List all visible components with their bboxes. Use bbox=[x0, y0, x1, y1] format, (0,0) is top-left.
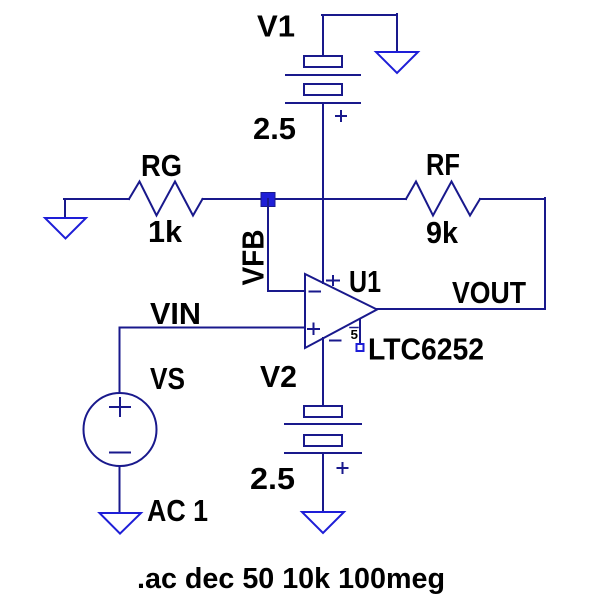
svg-text:VIN: VIN bbox=[150, 296, 201, 331]
svg-text:9k: 9k bbox=[426, 215, 459, 250]
svg-text:VOUT: VOUT bbox=[452, 275, 526, 310]
svg-text:2.5: 2.5 bbox=[250, 461, 295, 496]
wire V2 to ground bbox=[322, 453, 324, 512]
ground left bbox=[45, 199, 86, 239]
svg-text:LTC6252: LTC6252 bbox=[368, 332, 484, 367]
op-amp U1 bbox=[305, 274, 377, 348]
value 2.5 (V2) bbox=[250, 461, 295, 496]
wire V1 minus to op-amp V+ pin bbox=[322, 103, 324, 283]
voltage source VS bbox=[84, 393, 157, 466]
resistor RG bbox=[129, 182, 203, 216]
svg-text:U1: U1 bbox=[349, 264, 381, 299]
wire ground stub top right bbox=[396, 14, 398, 52]
label VIN bbox=[150, 296, 201, 331]
svg-text:V2: V2 bbox=[260, 359, 297, 394]
junction node VFB bbox=[261, 193, 275, 207]
svg-text:V1: V1 bbox=[257, 9, 295, 44]
wire VIN horizontal bbox=[120, 327, 306, 329]
wire RG to RF (through node VFB) bbox=[203, 198, 407, 200]
label VOUT bbox=[452, 275, 526, 310]
value 1k bbox=[148, 214, 183, 249]
ground top right bbox=[376, 52, 418, 73]
wire VS to ground bbox=[119, 466, 121, 513]
label U1 bbox=[349, 264, 381, 299]
wire node VFB down bbox=[267, 199, 269, 291]
label LTC6252 bbox=[368, 332, 484, 367]
svg-text:VS: VS bbox=[150, 361, 185, 396]
value 2.5 (V1) bbox=[253, 111, 296, 146]
svg-text:1k: 1k bbox=[148, 214, 183, 249]
resistor RF bbox=[406, 182, 480, 216]
wire VFB to inverting input bbox=[268, 290, 305, 292]
pin 5 stub bbox=[359, 319, 361, 344]
svg-text:2.5: 2.5 bbox=[253, 111, 296, 146]
svg-text:RF: RF bbox=[426, 147, 460, 182]
wire V1 top horizontal bbox=[322, 14, 397, 16]
label V1 bbox=[257, 9, 295, 44]
wire V1 top vertical bbox=[322, 15, 324, 56]
wire VOUT horizontal to op-amp output bbox=[377, 308, 545, 310]
value 9k bbox=[426, 215, 459, 250]
label RF bbox=[426, 147, 460, 182]
svg-text:.ac dec 50 10k 100meg: .ac dec 50 10k 100meg bbox=[137, 563, 445, 595]
ground bottom left bbox=[100, 513, 142, 534]
label VS bbox=[150, 361, 185, 396]
value AC 1 bbox=[147, 493, 208, 528]
wire VIN down to VS bbox=[119, 328, 121, 394]
pin number 5 bbox=[350, 327, 358, 342]
pin 5 terminal square bbox=[357, 344, 364, 351]
wire right vertical (VOUT feedback) bbox=[544, 198, 546, 309]
wire RF to right corner bbox=[480, 198, 545, 200]
svg-text:5: 5 bbox=[351, 327, 359, 342]
battery V2 bbox=[285, 406, 361, 473]
label RG bbox=[141, 148, 182, 183]
wire op-amp V- pin to V2 bbox=[322, 338, 324, 406]
spice directive .ac bbox=[137, 563, 445, 595]
svg-text:VFB: VFB bbox=[236, 230, 271, 286]
net label VFB bbox=[236, 230, 271, 286]
battery V1 bbox=[286, 56, 360, 121]
wire left ground to RG bbox=[64, 198, 129, 200]
svg-text:AC 1: AC 1 bbox=[147, 493, 208, 528]
label V2 bbox=[260, 359, 297, 394]
svg-text:RG: RG bbox=[141, 148, 182, 183]
ground bottom middle bbox=[302, 512, 344, 533]
